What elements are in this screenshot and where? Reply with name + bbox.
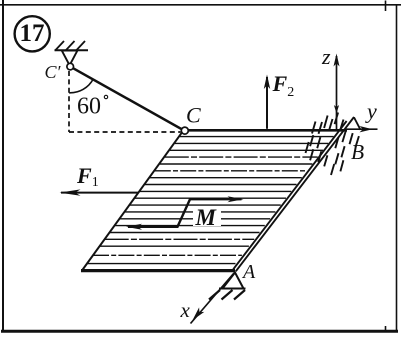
plate left edge (83, 130, 184, 269)
pin triangle leg at B (354, 117, 361, 130)
rail AB inner line (233, 121, 346, 269)
svg-text:M: M (195, 205, 218, 230)
pin triangle support at A (209, 273, 246, 300)
svg-text:C′: C′ (45, 62, 62, 82)
svg-text:17: 17 (20, 20, 45, 47)
svg-text:x: x (180, 298, 191, 322)
fixed support ceiling at C' (55, 41, 89, 51)
pin circle at C' (67, 63, 74, 70)
force F2 arrow (264, 75, 270, 129)
svg-text:y: y (365, 99, 377, 124)
y axis (345, 126, 378, 132)
hinge support B hatching (306, 113, 359, 176)
plate bottom edge (81, 269, 235, 272)
force F1 arrow (60, 189, 139, 195)
svg-text:60: 60 (77, 94, 101, 120)
dashed horizontal construction line to C (69, 131, 181, 133)
hinge circle at C (181, 127, 188, 134)
rod C'C (72, 67, 184, 130)
svg-text:z: z (321, 44, 331, 69)
plate hatching (87, 137, 334, 264)
label 60 degrees (77, 94, 108, 120)
plate top edge (183, 129, 347, 132)
60 degree angle arc (69, 79, 93, 93)
pin triangle at C' (62, 51, 78, 66)
label M (193, 205, 221, 230)
z axis (334, 54, 340, 130)
dashed vertical construction line (68, 71, 70, 132)
svg-text:C: C (186, 102, 201, 127)
svg-text:B: B (351, 140, 364, 164)
rail AB outer line (236, 117, 354, 271)
x axis (191, 273, 235, 324)
problem number 17 badge (15, 16, 50, 51)
moment M couple arrow (126, 196, 244, 230)
svg-text:A: A (241, 261, 256, 283)
